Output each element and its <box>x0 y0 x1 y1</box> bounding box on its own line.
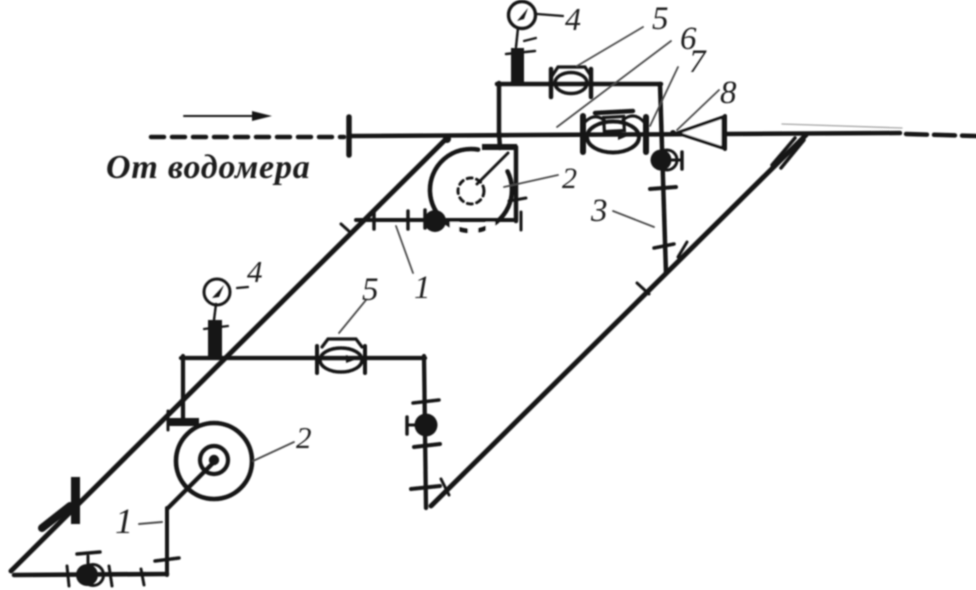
leader line 8 <box>677 90 719 130</box>
check valve 6/7: inner arrow <box>590 131 630 140</box>
upper pump discharge bar <box>482 144 517 150</box>
faint scan line above main line right <box>782 124 902 128</box>
flowmeter 5 (lower) <box>317 339 365 373</box>
svg-text:2: 2 <box>296 420 312 455</box>
gate valve on lower right riser <box>407 414 438 437</box>
flow direction arrow <box>184 111 272 121</box>
wire: main horizontal line <box>352 133 900 136</box>
wire: dashed supply line from water meter <box>151 135 344 140</box>
pressure gauge 4 (lower) <box>204 279 248 305</box>
upper pump shaft line <box>477 153 508 184</box>
check valve 6/7: side arcs <box>585 117 605 122</box>
junction blob <box>443 135 451 143</box>
tick on right diagonal (upper) <box>637 283 649 294</box>
leader line 1 (upper pipe 1) <box>396 226 413 273</box>
lower left down pipe <box>165 508 169 575</box>
flowmeter 5 (upper) <box>551 67 591 97</box>
pump 2 (lower) center dot <box>209 455 219 465</box>
upper pump right edge <box>514 147 519 221</box>
svg-text:4: 4 <box>565 1 581 37</box>
leader line 1 lower <box>139 522 162 524</box>
tick on pump right edge <box>509 198 526 201</box>
leader line 7 <box>650 67 678 126</box>
cone 8 (nozzle) <box>670 116 725 149</box>
tick pair at riser-diagonal junction <box>654 244 674 248</box>
svg-text:5: 5 <box>362 272 379 308</box>
bottom pipe <box>14 574 167 575</box>
tick on left diagonal <box>341 224 351 233</box>
svg-text:1: 1 <box>414 270 431 306</box>
svg-text:4: 4 <box>247 254 263 289</box>
check valve 6/7: right flange <box>643 117 649 152</box>
svg-text:7: 7 <box>689 44 707 80</box>
lower loop left riser <box>181 356 185 423</box>
check valve 6/7: body ellipse <box>587 122 639 153</box>
upper pump casing circle (volute, open at top-right) <box>430 149 512 231</box>
tick on right diagonal (lower) <box>441 479 449 495</box>
valve on left diagonal <box>42 477 80 528</box>
wire: main line end dashes right <box>906 134 976 136</box>
upper loop top pipe <box>497 82 661 87</box>
wire: right diagonal pipe <box>431 135 806 506</box>
svg-text:1: 1 <box>115 501 133 541</box>
upper pump suction pipe 1 <box>356 218 516 222</box>
gate valve on bottom pipe <box>76 552 104 586</box>
leader line 5 lower <box>339 300 366 333</box>
tick at pump bottom right <box>520 212 523 230</box>
pressure gauge 4 (upper) <box>509 2 564 29</box>
leader line 3 <box>613 211 654 227</box>
gauge cock / stem (lower) <box>204 304 228 358</box>
check valve 6/7: top bar <box>595 111 633 113</box>
white dashes over pump bottom arc <box>450 222 495 236</box>
wire: left diagonal pipe <box>11 139 446 571</box>
flange below valve <box>414 444 440 447</box>
svg-text:8: 8 <box>720 75 737 111</box>
leader line 6 <box>557 41 671 127</box>
hatch marks at right diagonal top <box>772 138 795 165</box>
lower loop right riser <box>424 356 426 508</box>
upper loop left riser <box>497 83 502 135</box>
pump 2 (lower) impeller circle <box>200 446 228 474</box>
tick lower on riser <box>411 486 440 489</box>
LOWER LOOP top pipe <box>181 356 425 360</box>
svg-text:3: 3 <box>590 193 608 229</box>
upper pump inner dashed circle <box>458 178 484 204</box>
flange tick on lower right riser <box>413 400 439 403</box>
upper loop right riser (pipe 3) <box>660 84 666 273</box>
flange ticks on bottom pipe <box>67 566 69 586</box>
hatch at left diagonal top <box>421 143 442 164</box>
gate valve on riser 3 <box>651 150 683 171</box>
valve on suction pipe (black) <box>424 210 446 232</box>
flange ticks on suction pipe <box>372 211 376 229</box>
leader line 2 lower <box>253 442 294 461</box>
upper pump stub from main line <box>499 133 500 148</box>
pump 2 (lower) discharge bar <box>168 418 199 426</box>
check valve 6/7: top square <box>604 116 625 131</box>
leader line 2 upper <box>504 175 558 187</box>
leader line 5 upper <box>577 27 643 66</box>
tick on lower left down pipe <box>155 558 179 561</box>
gauge cock / stem (upper) <box>506 28 536 85</box>
pump 2 (lower) suction line <box>168 463 213 508</box>
check valve 6/7: left flange <box>580 116 586 152</box>
pump 2 (lower) casing <box>176 423 252 499</box>
tick at pump discharge <box>167 411 170 430</box>
flange on riser 3 <box>650 187 676 189</box>
svg-text:2: 2 <box>562 162 577 195</box>
svg-text:5: 5 <box>652 1 669 37</box>
svg-text:От водомера: От водомера <box>106 149 311 186</box>
flange tick on supply line <box>346 117 352 155</box>
